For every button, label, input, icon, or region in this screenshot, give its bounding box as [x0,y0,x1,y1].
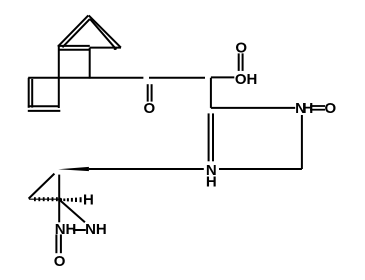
wire: long chain horizontal left part [28,77,143,79]
svg-text:NH: NH [55,221,77,238]
wire: NH left bond stub long line [89,168,204,170]
svg-text:H: H [303,100,314,117]
wire: long chain horizontal right part [149,77,205,79]
svg-text:H: H [206,174,217,191]
wire: upper square right vertical [89,48,91,79]
wire: lower square second bottom line (double bond) [28,110,61,112]
svg-text:NH: NH [85,221,107,238]
svg-text:OH: OH [235,71,258,88]
node: stereocenter junction dot [58,198,62,202]
wire: shared vertical (upper square left / lower square right) [58,46,60,108]
wire: lower square outer left vertical [28,78,30,108]
wire: triangle outer left edge [58,15,88,46]
svg-text:H: H [83,192,94,209]
capacitor-like: ketone C=O double bond lines [147,84,149,101]
wire: cyclopropane left edge [29,174,55,199]
wire: lower horizontal line B-D (square top) [59,49,90,51]
resistor-like: hash ticks on left hashed bond [35,197,57,201]
capacitor-like: N=O bottom double bond lines [55,234,57,253]
wire: triangle outer right edge [89,15,121,47]
svg-text:O: O [54,253,66,270]
wire: cyclopropane right vertical (apex to stereocenter to N) [58,175,60,223]
wire: chain corner vertical down [210,78,212,108]
capacitor-like: C=N imine double bond lines [208,113,210,161]
wire: N1H to N2H bond [73,229,86,231]
wire: diagonal to NH2 [60,201,85,223]
node: nub at right triangle vertex [114,47,117,50]
wire: upper horizontal double bond line B-D [58,45,90,47]
wire: hashed bond baseline [29,198,59,200]
wire: lower square inner left vertical (double bond) [31,79,33,108]
wire: lower square bottom edge [28,105,60,107]
capacitor-like: N=O horizontal double bond lines over H [310,106,325,110]
wire: triangle inner right edge [90,19,116,49]
svg-text:O: O [235,39,247,56]
capacitor-like: acid C=O double bond lines [238,53,240,71]
wire: bond to OH [211,76,234,78]
wire: right N vertical down [301,115,303,169]
svg-text:O: O [143,100,155,117]
wire: horizontal to right N [211,107,295,109]
resistor-like: hash ticks on right hashed bond to H [64,197,80,202]
transistor-like: solid wedge bond (arrow) [58,167,89,171]
wire: triangle inner left edge [62,19,90,47]
wire: bottom rail to NH [219,168,302,170]
svg-text:O: O [324,100,336,117]
wire: horizontal line D-C [90,47,121,49]
